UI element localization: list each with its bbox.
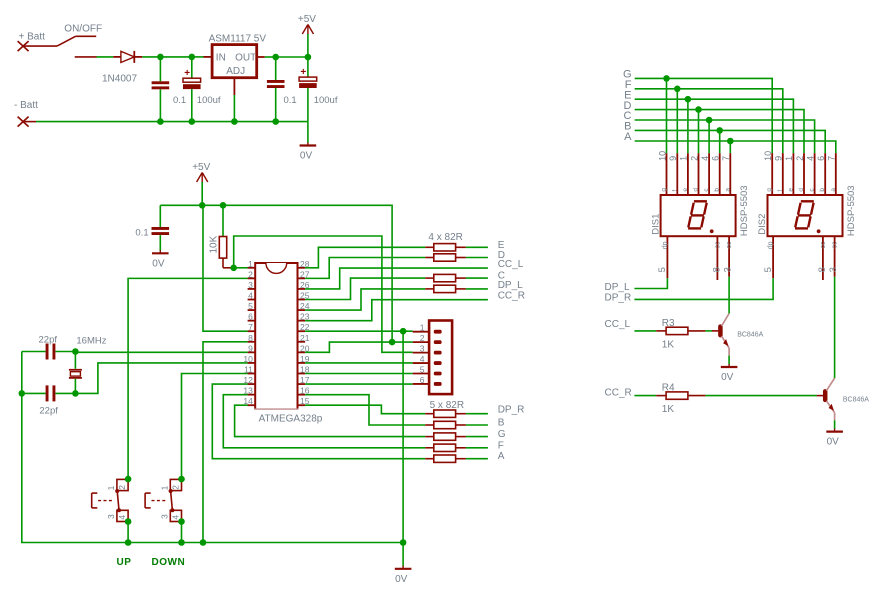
junction bbox=[19, 390, 26, 397]
resistor R1 10K bbox=[209, 205, 234, 267]
svg-text:10: 10 bbox=[763, 151, 773, 161]
svg-text:8: 8 bbox=[711, 267, 722, 272]
wire bbox=[466, 288, 488, 290]
svg-text:- Batt: - Batt bbox=[14, 100, 38, 111]
resistor R8 82R (DP_L) bbox=[425, 285, 466, 292]
junction bbox=[400, 539, 407, 546]
svg-text:0V: 0V bbox=[300, 151, 313, 162]
switch S1 ON/OFF bbox=[57, 36, 96, 46]
junction bbox=[125, 518, 132, 525]
wire bbox=[192, 56, 204, 58]
wire pin7 to +5V rail bbox=[203, 205, 248, 331]
svg-text:dp: dp bbox=[768, 241, 775, 249]
capacitor C7 22pf bbox=[22, 385, 76, 416]
wire bbox=[466, 413, 488, 415]
wire pin12 to net A bbox=[212, 384, 425, 459]
svg-text:CC_R: CC_R bbox=[498, 291, 525, 302]
svg-text:21: 21 bbox=[300, 333, 310, 343]
capacitor C3 0.1 bbox=[267, 57, 297, 122]
wire bbox=[265, 56, 276, 58]
wire CC_R to R4 bbox=[634, 395, 656, 397]
junction bbox=[706, 117, 713, 124]
svg-text:g: g bbox=[661, 188, 668, 192]
svg-text:b: b bbox=[714, 188, 721, 192]
junction bbox=[674, 86, 681, 93]
node - Batt terminal bbox=[18, 117, 29, 127]
wire bbox=[466, 277, 488, 279]
svg-text:1: 1 bbox=[159, 485, 169, 490]
wire + Batt to switch bbox=[23, 45, 57, 47]
junction bbox=[663, 75, 670, 82]
wire +5V arrow to OUT net bbox=[307, 34, 309, 57]
capacitor C5 0.1 bbox=[135, 205, 169, 250]
wire bbox=[466, 246, 488, 248]
wire bbox=[276, 56, 308, 58]
wire bbox=[160, 56, 191, 58]
wire Q3 emitter to ground bbox=[834, 420, 836, 429]
connector SV1 ISP bbox=[413, 321, 452, 395]
svg-text:d: d bbox=[798, 188, 805, 192]
wire RESET to ISP bbox=[234, 236, 413, 352]
svg-text:cc: cc bbox=[726, 241, 733, 249]
svg-text:e: e bbox=[787, 188, 794, 192]
crystal Q1 16MHz bbox=[69, 335, 107, 393]
diode D1 1N4007 bbox=[113, 51, 142, 63]
wire bbox=[22, 392, 46, 394]
wire RESET to pin 1 bbox=[234, 267, 248, 269]
svg-text:cc: cc bbox=[832, 241, 839, 249]
wire pin22 GND bbox=[305, 330, 413, 332]
svg-text:dp: dp bbox=[662, 241, 669, 249]
wire Q2 collector to DIS1 cc bbox=[728, 277, 730, 314]
svg-text:HDSP-5503: HDSP-5503 bbox=[846, 185, 857, 236]
junction bbox=[685, 96, 692, 103]
capacitor C6 22pf bbox=[22, 334, 76, 359]
svg-text:DP_L: DP_L bbox=[605, 282, 630, 293]
svg-text:+ Batt: + Batt bbox=[19, 32, 46, 43]
junction bbox=[178, 476, 185, 483]
wire pin2 to UP button bbox=[128, 278, 248, 479]
junction bbox=[389, 339, 396, 346]
wire pin9 to crystal bbox=[75, 351, 247, 353]
node + Batt terminal bbox=[18, 41, 29, 51]
junction bbox=[727, 138, 734, 145]
resistor R3 1K bbox=[656, 318, 705, 351]
svg-text:+5V: +5V bbox=[298, 14, 316, 25]
svg-text:DP_L: DP_L bbox=[498, 280, 523, 291]
wire bbox=[275, 57, 277, 80]
svg-text:8: 8 bbox=[817, 267, 828, 272]
svg-text:0V: 0V bbox=[721, 372, 734, 383]
junction bbox=[189, 54, 196, 61]
wire DOWN button to rail bbox=[181, 522, 183, 543]
junction bbox=[716, 127, 723, 134]
wire pin19 to ISP pin4 bbox=[305, 362, 413, 364]
wire bbox=[276, 121, 308, 123]
wire bbox=[466, 257, 488, 259]
wire DP_L to DIS1 dp bbox=[634, 278, 667, 288]
wire pin15 to net DP_R bbox=[305, 405, 425, 413]
junction bbox=[220, 202, 227, 209]
wire bbox=[191, 57, 193, 78]
wire bbox=[55, 351, 75, 353]
svg-text:OUT: OUT bbox=[235, 52, 256, 63]
ground 0V (rail) bbox=[402, 566, 404, 569]
svg-text:cc: cc bbox=[714, 241, 721, 249]
junction bbox=[125, 539, 132, 546]
wire CC_L to R3 bbox=[634, 330, 656, 332]
junction bbox=[272, 54, 279, 61]
ground 0V (C5) bbox=[159, 250, 161, 253]
wire bus E bbox=[635, 99, 794, 153]
wire pin23 to net CC_R bbox=[305, 300, 488, 321]
junction bbox=[157, 118, 164, 125]
capacitor C1 0.1 bbox=[152, 57, 187, 122]
wire bbox=[307, 57, 309, 77]
regulator OUT pin wire bbox=[257, 56, 265, 58]
wire +5V arrow down bbox=[201, 182, 203, 205]
resistor R7 82R (C) bbox=[425, 274, 466, 281]
svg-text:a: a bbox=[724, 188, 731, 192]
svg-text:+5V: +5V bbox=[192, 162, 210, 173]
regulator ADJ pin wire bbox=[233, 78, 235, 95]
svg-text:B: B bbox=[498, 418, 505, 429]
voltage regulator U2 ASM1117 bbox=[212, 45, 257, 78]
svg-text:4: 4 bbox=[248, 291, 253, 301]
wire bbox=[466, 424, 488, 426]
wire bbox=[97, 56, 114, 58]
display DIS1 HDSP-5503 bbox=[650, 151, 750, 280]
svg-text:9: 9 bbox=[248, 343, 253, 353]
svg-text:F: F bbox=[498, 440, 504, 451]
svg-text:A: A bbox=[624, 131, 632, 143]
svg-text:3: 3 bbox=[828, 267, 839, 272]
wire bbox=[160, 121, 191, 123]
wire pin11 to DOWN button bbox=[182, 374, 248, 480]
wire pin18 to ISP pin5 bbox=[305, 373, 413, 375]
wire bbox=[275, 88, 277, 122]
wire bus A bbox=[635, 141, 836, 153]
svg-text:4: 4 bbox=[420, 354, 425, 364]
svg-text:3: 3 bbox=[106, 514, 116, 519]
ground 0V (Q2) bbox=[728, 364, 730, 367]
svg-text:5: 5 bbox=[657, 267, 668, 272]
svg-text:9: 9 bbox=[774, 156, 784, 161]
resistor R12 82R (F) bbox=[425, 444, 466, 451]
capacitor C2 100uf bbox=[183, 57, 221, 122]
wire bus C bbox=[635, 120, 815, 153]
power +5V supply bbox=[307, 25, 309, 35]
transistor Q3 BC846A bbox=[817, 378, 835, 420]
svg-text:DP_R: DP_R bbox=[605, 293, 632, 304]
wire bbox=[191, 89, 193, 122]
svg-text:ON/OFF: ON/OFF bbox=[64, 24, 102, 35]
wire bus C tap to DIS1 bbox=[708, 120, 710, 153]
transistor Q2 BC846A bbox=[712, 313, 729, 355]
junction bbox=[157, 54, 164, 61]
svg-text:16MHz: 16MHz bbox=[76, 335, 106, 346]
wire bbox=[55, 392, 75, 394]
svg-text:f: f bbox=[777, 190, 784, 192]
wire bbox=[36, 121, 160, 123]
svg-text:3: 3 bbox=[420, 343, 425, 353]
svg-text:4 x 82R: 4 x 82R bbox=[428, 232, 462, 243]
wire bus B tap to DIS1 bbox=[719, 130, 721, 153]
junction bbox=[72, 390, 79, 397]
wire UP button to rail bbox=[127, 522, 129, 543]
svg-text:5: 5 bbox=[248, 301, 253, 311]
wire bus D bbox=[635, 110, 804, 154]
svg-text:3: 3 bbox=[722, 267, 733, 272]
svg-text:2: 2 bbox=[689, 156, 699, 161]
wire bbox=[159, 235, 161, 251]
svg-text:0V: 0V bbox=[152, 258, 165, 269]
wire pin20 to ISP pin2 bbox=[305, 342, 413, 352]
svg-text:10K: 10K bbox=[209, 235, 220, 253]
wire bbox=[233, 95, 235, 122]
svg-text:ASM1117 5V: ASM1117 5V bbox=[209, 34, 267, 45]
push button DOWN bbox=[145, 479, 181, 521]
svg-text:3: 3 bbox=[248, 280, 253, 290]
ground 0V bbox=[307, 143, 309, 146]
svg-text:DP_R: DP_R bbox=[498, 405, 525, 416]
svg-text:5: 5 bbox=[763, 267, 774, 272]
svg-text:BC846A: BC846A bbox=[843, 396, 869, 403]
ground 0V (Q3) bbox=[834, 429, 836, 432]
svg-text:1K: 1K bbox=[662, 339, 675, 350]
wire GND down to rail bbox=[402, 331, 404, 542]
svg-text:d: d bbox=[693, 188, 700, 192]
wire switch to diode bbox=[75, 56, 97, 58]
resistor R13 82R (A) bbox=[425, 455, 466, 462]
wire pin8 to ground rail bbox=[203, 342, 248, 543]
wire bbox=[74, 379, 76, 394]
svg-text:6: 6 bbox=[248, 312, 253, 322]
wire bus F bbox=[635, 89, 783, 153]
wire pin10 to crystal bbox=[75, 363, 247, 393]
wire pin26 to net CC_L bbox=[305, 268, 488, 289]
svg-text:1: 1 bbox=[248, 259, 253, 269]
wire - Batt rail bbox=[23, 121, 36, 123]
wire bus B bbox=[635, 130, 826, 153]
wire R4 to Q3 base bbox=[705, 395, 817, 397]
svg-text:G: G bbox=[498, 429, 506, 440]
wire pin24 to net DP_L bbox=[305, 289, 425, 310]
svg-text:b: b bbox=[819, 188, 826, 192]
svg-text:100uf: 100uf bbox=[197, 95, 221, 106]
wire bus A tap to DIS1 bbox=[729, 141, 731, 153]
wire crystal caps to ground rail bbox=[22, 352, 128, 543]
wire bbox=[222, 205, 224, 236]
wire to regulator IN pin bbox=[204, 56, 213, 58]
svg-text:HDSP-5503: HDSP-5503 bbox=[739, 185, 750, 236]
svg-text:0.1: 0.1 bbox=[135, 227, 148, 238]
wire bbox=[192, 121, 276, 123]
svg-text:e: e bbox=[682, 188, 689, 192]
svg-text:7: 7 bbox=[827, 156, 837, 161]
svg-text:2: 2 bbox=[171, 485, 181, 490]
push button UP bbox=[92, 479, 128, 521]
wire bbox=[307, 88, 309, 122]
wire bbox=[159, 57, 161, 81]
wire bbox=[159, 205, 161, 227]
svg-text:2: 2 bbox=[420, 333, 425, 343]
wire Q3 collector to DIS2 cc bbox=[834, 277, 836, 378]
wire bus G bbox=[635, 78, 773, 153]
svg-text:DIS1: DIS1 bbox=[650, 214, 661, 235]
svg-text:1N4007: 1N4007 bbox=[102, 74, 137, 85]
wire Q2 emitter to ground bbox=[728, 356, 730, 365]
wire R3 to Q2 base bbox=[705, 330, 712, 332]
svg-text:1: 1 bbox=[106, 485, 116, 490]
junction bbox=[230, 265, 237, 272]
svg-text:DOWN: DOWN bbox=[152, 557, 186, 568]
junction bbox=[178, 518, 185, 525]
svg-text:ADJ: ADJ bbox=[226, 66, 245, 77]
svg-text:cc: cc bbox=[820, 241, 827, 249]
wire pin28 to net E bbox=[305, 247, 425, 267]
display DIS2 HDSP-5503 bbox=[757, 151, 857, 280]
resistor R5 82R (E) bbox=[425, 244, 466, 251]
wire bbox=[466, 447, 488, 449]
resistor R6 82R (D) bbox=[425, 254, 466, 261]
resistor R9 82R (DP_R) bbox=[425, 410, 466, 417]
svg-text:4: 4 bbox=[171, 515, 181, 520]
junction bbox=[272, 118, 279, 125]
svg-text:CC_L: CC_L bbox=[498, 259, 524, 270]
svg-text:0.1: 0.1 bbox=[284, 95, 297, 106]
svg-text:1K: 1K bbox=[662, 404, 675, 415]
junction bbox=[125, 476, 132, 483]
svg-text:7: 7 bbox=[248, 322, 253, 332]
svg-text:7: 7 bbox=[721, 156, 731, 161]
7-segment digit 8 (DIS2) bbox=[795, 201, 820, 233]
svg-text:8: 8 bbox=[248, 333, 253, 343]
svg-text:3: 3 bbox=[159, 514, 169, 519]
wire to ground bbox=[307, 122, 309, 143]
wire bus D tap to DIS1 bbox=[698, 110, 700, 154]
wire bbox=[22, 351, 46, 353]
svg-text:4: 4 bbox=[117, 515, 127, 520]
power +5V supply (MCU) bbox=[201, 173, 203, 183]
junction bbox=[199, 202, 206, 209]
IC U1 ATMEGA328p bbox=[243, 259, 309, 410]
wire rail to ground symbol bbox=[402, 543, 404, 567]
svg-text:UP: UP bbox=[117, 557, 132, 568]
svg-text:100uf: 100uf bbox=[314, 95, 338, 106]
svg-text:6: 6 bbox=[420, 375, 425, 385]
svg-text:CC_R: CC_R bbox=[605, 387, 632, 398]
svg-text:CC_L: CC_L bbox=[605, 319, 631, 330]
wire DP_R to DIS2 dp bbox=[634, 278, 773, 299]
svg-text:4: 4 bbox=[805, 156, 815, 161]
svg-text:2: 2 bbox=[795, 156, 805, 161]
wire pin25 to net C bbox=[305, 278, 425, 299]
svg-text:BC846A: BC846A bbox=[737, 332, 763, 339]
junction bbox=[695, 106, 702, 113]
resistor R10 82R (B) bbox=[425, 421, 466, 428]
svg-text:0V: 0V bbox=[827, 437, 840, 448]
svg-text:2: 2 bbox=[248, 269, 253, 279]
junction bbox=[189, 118, 196, 125]
junction bbox=[400, 328, 407, 335]
svg-text:22pf: 22pf bbox=[39, 406, 58, 417]
svg-text:DIS2: DIS2 bbox=[757, 214, 768, 235]
svg-text:ATMEGA328p: ATMEGA328p bbox=[259, 413, 323, 424]
junction bbox=[178, 539, 185, 546]
wire bus F tap to DIS1 bbox=[676, 89, 678, 153]
svg-text:1: 1 bbox=[679, 156, 689, 161]
wire pin16 to net B bbox=[305, 395, 425, 425]
capacitor C4 100uf bbox=[299, 57, 338, 122]
svg-text:4: 4 bbox=[700, 156, 710, 161]
svg-text:6: 6 bbox=[711, 156, 721, 161]
svg-text:10: 10 bbox=[657, 151, 667, 161]
wire bbox=[142, 56, 160, 58]
wire bbox=[159, 89, 161, 121]
svg-text:a: a bbox=[830, 188, 837, 192]
wire bus G tap to DIS1 bbox=[666, 78, 668, 153]
wire bbox=[74, 352, 76, 369]
svg-text:1: 1 bbox=[420, 323, 425, 333]
7-segment digit 8 (DIS1) bbox=[688, 201, 714, 233]
svg-text:g: g bbox=[766, 188, 773, 192]
wire pin17 to ISP pin6 bbox=[305, 383, 413, 385]
wire +5V rail bbox=[160, 205, 392, 342]
svg-text:f: f bbox=[671, 190, 678, 192]
svg-text:A: A bbox=[498, 451, 505, 462]
svg-text:9: 9 bbox=[668, 156, 678, 161]
junction bbox=[305, 54, 312, 61]
junction bbox=[200, 539, 207, 546]
wire bus E tap to DIS1 bbox=[687, 99, 689, 153]
wire pin27 to net D bbox=[305, 258, 425, 279]
wire pin14 to net G bbox=[235, 405, 426, 436]
resistor R4 1K bbox=[656, 383, 705, 416]
wire ground rail bbox=[128, 542, 403, 544]
wire bbox=[466, 436, 488, 438]
wire pin13 to net F bbox=[223, 395, 425, 448]
svg-text:2: 2 bbox=[117, 485, 127, 490]
svg-text:IN: IN bbox=[216, 52, 226, 63]
junction bbox=[231, 118, 238, 125]
svg-text:1: 1 bbox=[784, 156, 794, 161]
svg-text:6: 6 bbox=[816, 156, 826, 161]
wire bbox=[466, 458, 488, 460]
svg-text:5: 5 bbox=[420, 364, 425, 374]
svg-text:0.1: 0.1 bbox=[173, 95, 186, 106]
resistor R11 82R (G) bbox=[425, 433, 466, 440]
svg-text:0V: 0V bbox=[395, 574, 408, 585]
junction bbox=[72, 348, 79, 355]
